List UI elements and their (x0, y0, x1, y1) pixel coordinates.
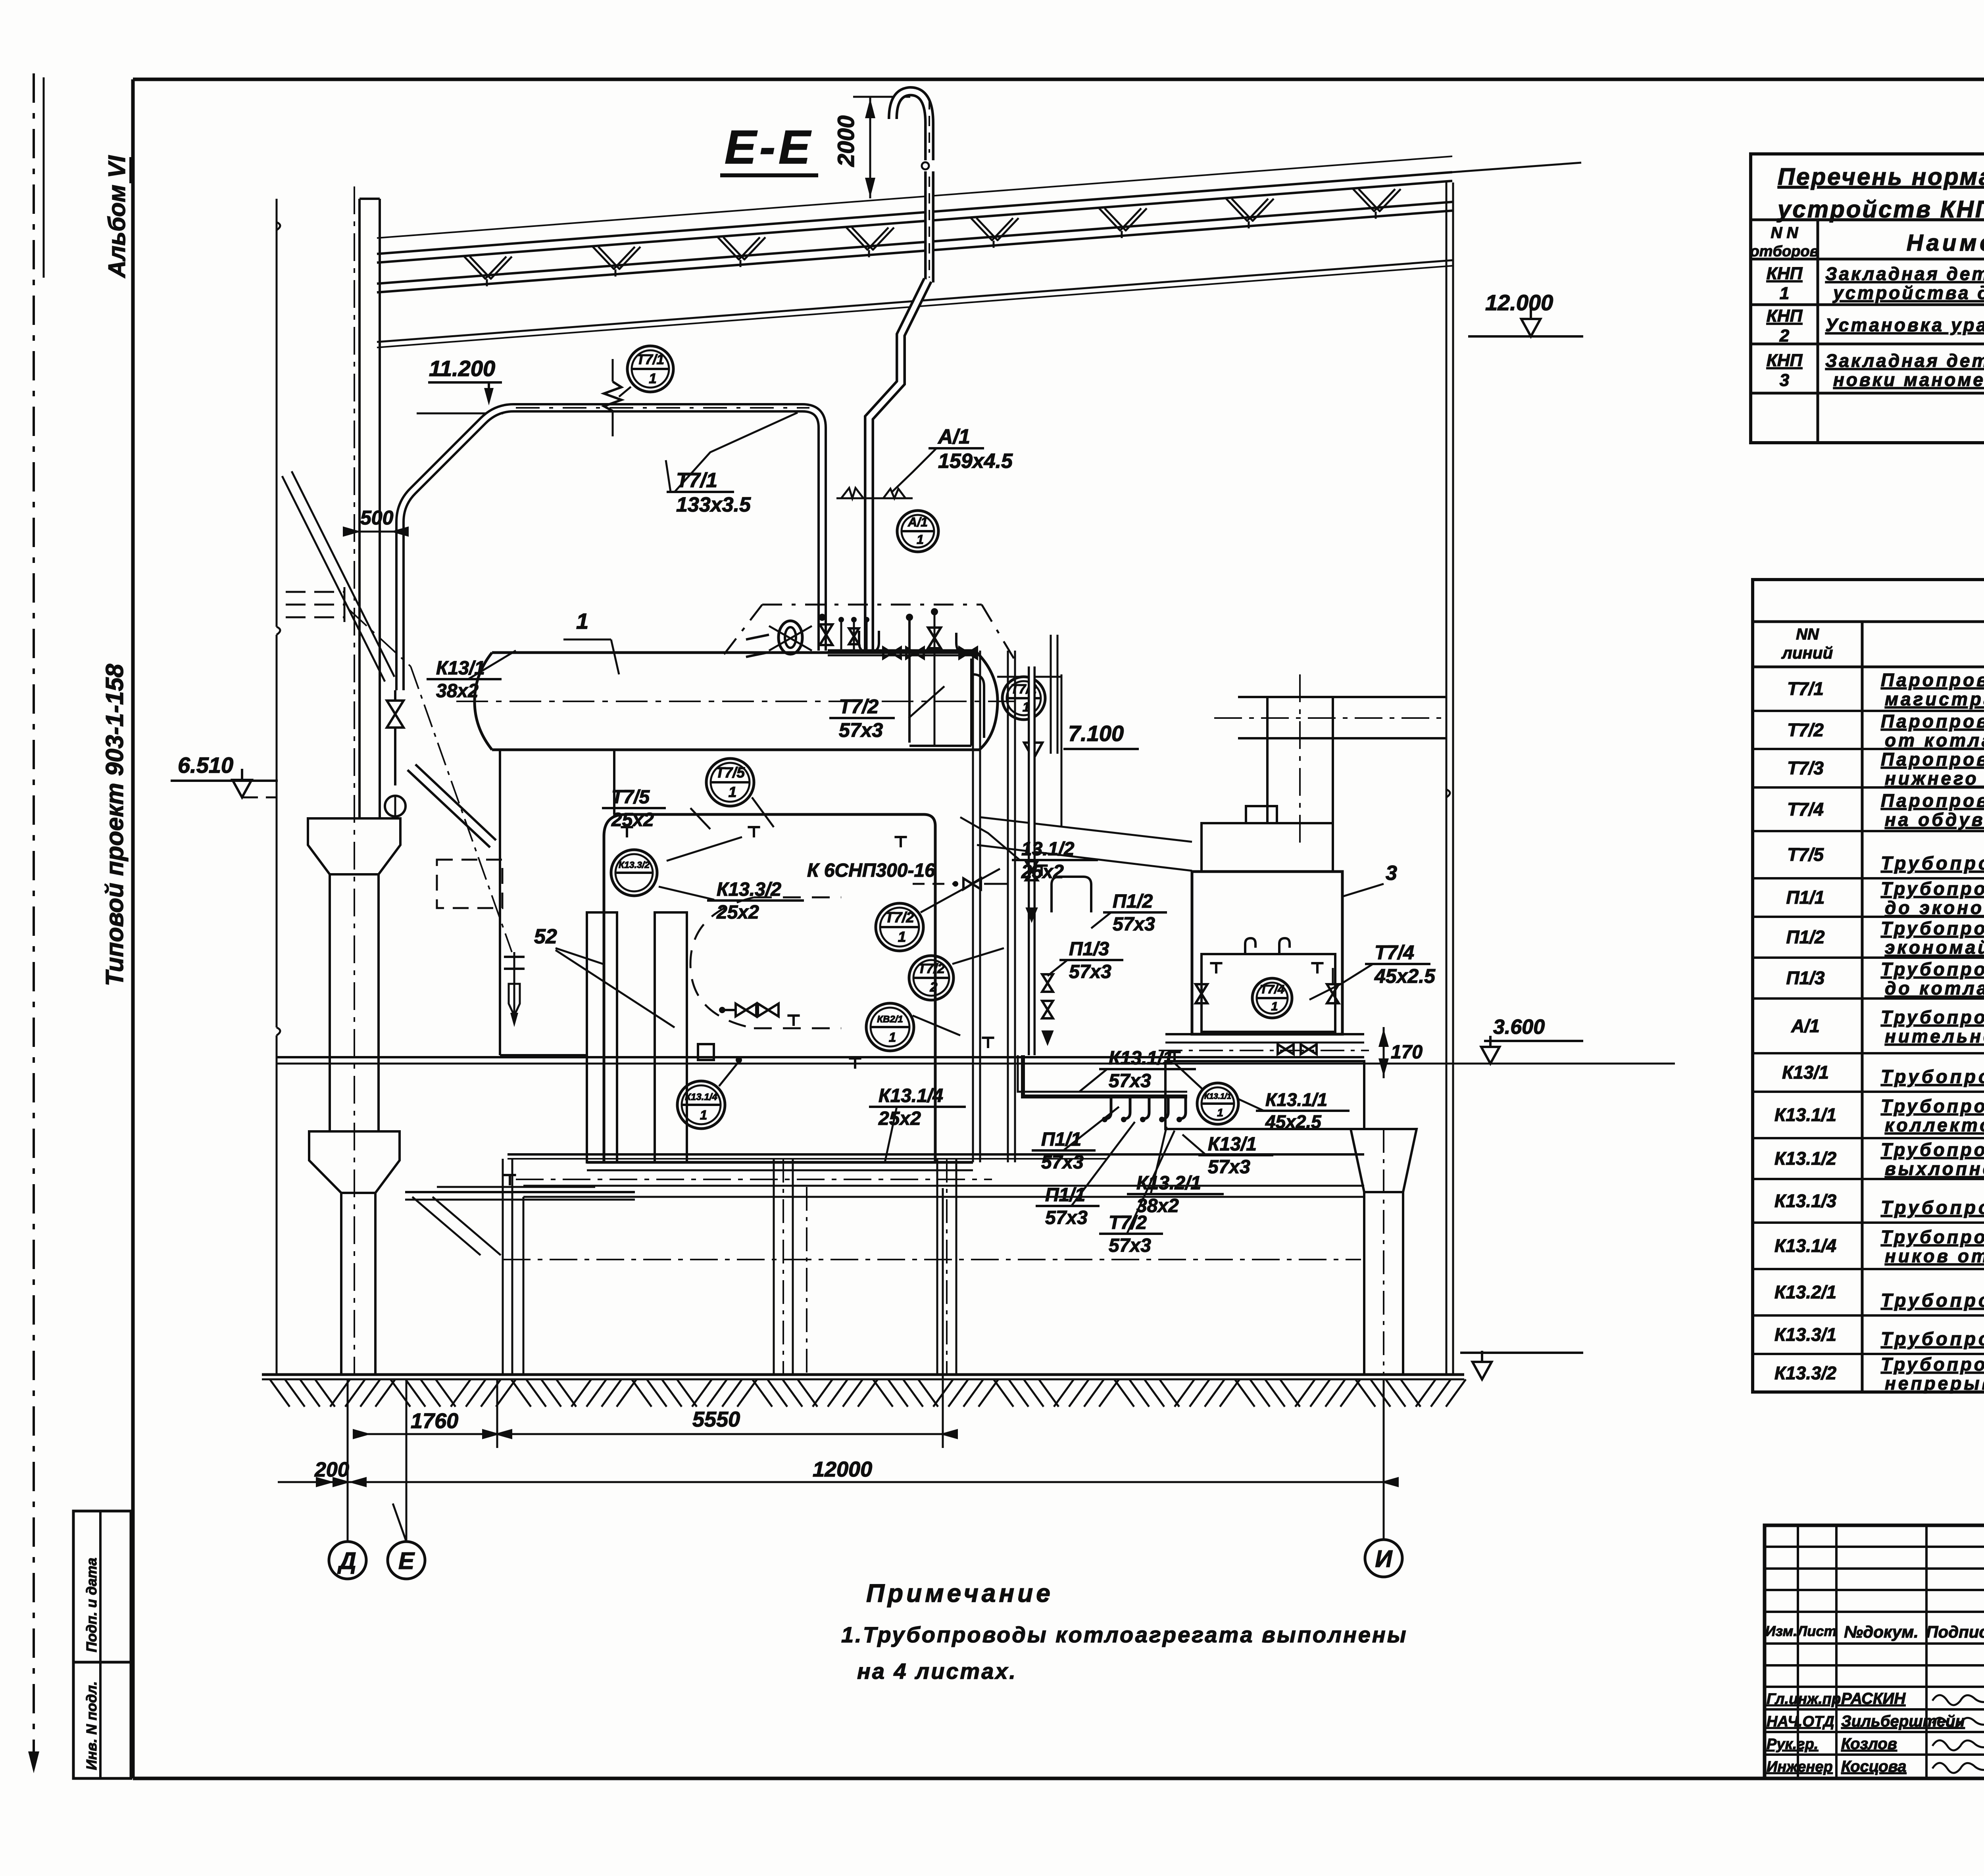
svg-text:25х2: 25х2 (716, 902, 759, 923)
svg-text:устройств КНП и средств ав: устройств КНП и средств автоматизации. (1776, 196, 1984, 223)
svg-text:К13.1/4: К13.1/4 (879, 1085, 943, 1106)
svg-text:Паропровод на разогрев: Паропровод на разогрев (1881, 749, 1984, 770)
svg-text:12000: 12000 (813, 1457, 872, 1481)
svg-text:Т7/2: Т7/2 (885, 909, 914, 926)
svg-text:К13.3/1: К13.3/1 (1774, 1324, 1836, 1345)
svg-text:выхлопного трубопровода: выхлопного трубопровода (1885, 1158, 1984, 1179)
svg-text:Инженер: Инженер (1767, 1759, 1833, 1775)
svg-text:К 6СНП300-16: К 6СНП300-16 (807, 860, 935, 881)
svg-text:57х3: 57х3 (1113, 914, 1155, 935)
svg-text:52: 52 (534, 925, 557, 948)
svg-text:Т7/4: Т7/4 (1260, 982, 1284, 996)
svg-text:159х4.5: 159х4.5 (938, 449, 1013, 472)
svg-text:К13.1/3: К13.1/3 (1774, 1191, 1837, 1211)
svg-text:К13.3/2: К13.3/2 (717, 879, 781, 900)
svg-text:Трубопровод сливной от холо: Трубопровод сливной от холодиль- (1881, 1227, 1984, 1247)
svg-text:1: 1 (898, 929, 906, 945)
svg-text:Трубопровод выхлопной от пре: Трубопровод выхлопной от предохра- (1881, 1007, 1984, 1027)
svg-text:К13.1/2: К13.1/2 (1774, 1148, 1837, 1169)
svg-text:на обдувку экономайзера: на обдувку экономайзера (1885, 809, 1984, 830)
svg-text:57х3: 57х3 (1208, 1157, 1250, 1178)
svg-text:КНП: КНП (1767, 351, 1803, 370)
svg-text:от котла: от котла (1885, 730, 1984, 751)
svg-text:3: 3 (1386, 862, 1397, 885)
svg-text:Т7/1: Т7/1 (1787, 678, 1824, 699)
svg-text:К13/1: К13/1 (1208, 1134, 1257, 1155)
svg-text:Е-Е: Е-Е (725, 121, 813, 174)
svg-text:45х2.5: 45х2.5 (1265, 1112, 1322, 1132)
svg-text:новки манометра: новки манометра (1833, 369, 1984, 390)
svg-text:непрерывной продувки.: непрерывной продувки. (1885, 1373, 1984, 1394)
svg-text:1: 1 (1271, 999, 1278, 1013)
svg-text:N N: N N (1771, 224, 1799, 242)
svg-text:Косцова: Косцова (1841, 1758, 1906, 1775)
svg-text:К13.3/2: К13.3/2 (619, 860, 650, 870)
svg-text:1: 1 (700, 1108, 707, 1122)
svg-text:Подпись: Подпись (1926, 1623, 1984, 1641)
svg-text:линий: линий (1781, 643, 1833, 662)
svg-text:57х3: 57х3 (1109, 1235, 1151, 1256)
svg-text:Трубопровод питательной воды: Трубопровод питательной воды (1881, 959, 1984, 979)
svg-text:НАЧ.ОТД: НАЧ.ОТД (1767, 1713, 1834, 1730)
svg-text:П1/3: П1/3 (1786, 968, 1824, 988)
svg-text:КВ2/1: КВ2/1 (877, 1014, 903, 1025)
svg-text:Примечание: Примечание (866, 1579, 1054, 1607)
svg-text:Т7/5: Т7/5 (1787, 844, 1824, 865)
svg-text:1: 1 (1780, 284, 1789, 303)
svg-text:К13.3/2: К13.3/2 (1774, 1363, 1837, 1383)
svg-text:1: 1 (649, 371, 656, 386)
svg-text:1760: 1760 (411, 1409, 458, 1433)
svg-text:П1/1: П1/1 (1786, 887, 1824, 908)
svg-text:2: 2 (930, 980, 938, 995)
svg-text:Козлов: Козлов (1841, 1735, 1897, 1753)
svg-text:Трубопровод отбора проб вод: Трубопровод отбора проб воды (1881, 1354, 1984, 1375)
svg-text:Трубопровод дренажный от: Трубопровод дренажный от (1881, 1139, 1984, 1160)
svg-text:Т7/1: Т7/1 (676, 469, 717, 492)
svg-text:38х2: 38х2 (436, 681, 479, 702)
svg-text:NN: NN (1796, 626, 1819, 643)
svg-text:2000: 2000 (833, 115, 859, 167)
svg-text:1: 1 (889, 1030, 896, 1045)
svg-text:ников отбора проб.: ников отбора проб. (1885, 1246, 1984, 1266)
svg-text:П1/3: П1/3 (1069, 939, 1109, 960)
svg-text:КНП: КНП (1767, 264, 1803, 283)
svg-text:К13.1/4: К13.1/4 (685, 1092, 717, 1102)
svg-text:Т7/5: Т7/5 (715, 764, 745, 781)
svg-text:3.600: 3.600 (1493, 1016, 1545, 1039)
svg-text:25х2: 25х2 (878, 1108, 921, 1129)
svg-text:2: 2 (1779, 326, 1790, 346)
svg-text:25х2: 25х2 (1021, 862, 1064, 883)
svg-text:170: 170 (1391, 1042, 1423, 1063)
svg-text:Наименование: Наименование (1907, 230, 1984, 256)
svg-text:К13.1/1: К13.1/1 (1204, 1092, 1231, 1101)
svg-text:7.100: 7.100 (1068, 721, 1124, 746)
svg-text:Паропровод собственных нужд: Паропровод собственных нужд (1881, 711, 1984, 732)
svg-text:отборов: отборов (1750, 243, 1819, 260)
svg-text:нижнего барабана котла: нижнего барабана котла (1885, 768, 1984, 789)
svg-text:Т7/4: Т7/4 (1787, 799, 1824, 820)
svg-text:1: 1 (917, 532, 924, 547)
svg-text:Трубопровод дренажный сливно: Трубопровод дренажный сливной (1881, 1197, 1984, 1218)
svg-text:200: 200 (314, 1458, 349, 1481)
svg-text:45х2.5: 45х2.5 (1374, 965, 1436, 987)
svg-text:Инв. N подл.: Инв. N подл. (83, 1681, 100, 1770)
svg-text:Закладная деталь отборного: Закладная деталь отборного (1825, 263, 1984, 284)
svg-text:Изм.: Изм. (1765, 1623, 1797, 1639)
svg-text:500: 500 (360, 507, 394, 529)
svg-text:П1/2: П1/2 (1113, 891, 1153, 912)
svg-text:Т7/4: Т7/4 (1375, 941, 1414, 964)
svg-text:25х2: 25х2 (611, 810, 654, 831)
svg-text:К13.1/1: К13.1/1 (1774, 1104, 1836, 1125)
svg-text:на 4 листах.: на 4 листах. (857, 1659, 1017, 1684)
svg-text:1: 1 (729, 784, 737, 800)
svg-text:Трубопровод периодической пр: Трубопровод периодической продувки (1881, 1290, 1984, 1311)
svg-text:магистральному паропроводу: магистральному паропроводу (1885, 689, 1984, 709)
svg-text:Типовой проект 903-1-158: Типовой проект 903-1-158 (101, 664, 129, 986)
svg-text:нительного клапана котла: нительного клапана котла (1885, 1026, 1984, 1046)
svg-text:1.Трубопроводы котлоагрегата: 1.Трубопроводы котлоагрегата выполнены (841, 1622, 1408, 1647)
svg-text:1: 1 (1217, 1106, 1223, 1119)
svg-text:КНП: КНП (1767, 306, 1803, 326)
svg-text:Трубопровод дренажный от ниж: Трубопровод дренажный от нижнего (1881, 1096, 1984, 1116)
svg-text:Трубопровод отбора проб пар: Трубопровод отбора проб пара (1881, 853, 1984, 874)
svg-text:Установка уравнительного сос: Установка уравнительного сосуда (1825, 315, 1984, 335)
svg-text:Е: Е (398, 1548, 415, 1574)
svg-text:до котла: до котла (1885, 978, 1984, 998)
svg-text:3: 3 (1780, 371, 1789, 390)
svg-text:12.000: 12.000 (1485, 290, 1553, 315)
svg-text:Гл.инж.пр: Гл.инж.пр (1767, 1691, 1841, 1707)
svg-text:Т7/2: Т7/2 (839, 695, 879, 718)
svg-text:Т7/3: Т7/3 (1787, 758, 1824, 778)
svg-text:К13/1: К13/1 (1782, 1062, 1829, 1083)
svg-text:№докум.: №докум. (1844, 1623, 1919, 1641)
svg-text:Лист: Лист (1796, 1623, 1837, 1639)
svg-text:К13.1/4: К13.1/4 (1774, 1235, 1836, 1256)
svg-text:11.200: 11.200 (429, 356, 495, 381)
svg-text:57х3: 57х3 (1045, 1208, 1088, 1229)
svg-text:коллектора экономайзера и па: коллектора экономайзера и паропровода (1885, 1115, 1984, 1135)
svg-text:133х3.5: 133х3.5 (676, 493, 751, 516)
svg-text:до экономайзера: до экономайзера (1885, 897, 1984, 918)
svg-text:Перечень нормалей для устан: Перечень нормалей для установки отборных (1778, 163, 1984, 190)
svg-text:Трубопровод дренажный напорн: Трубопровод дренажный напорный (1881, 1066, 1984, 1087)
svg-text:А/1: А/1 (907, 515, 928, 529)
svg-text:П1/2: П1/2 (1786, 927, 1824, 947)
svg-text:57х3: 57х3 (1041, 1152, 1084, 1173)
svg-text:1: 1 (576, 609, 588, 634)
svg-text:5550: 5550 (692, 1407, 740, 1431)
svg-text:Подп. и дата: Подп. и дата (83, 1558, 100, 1652)
svg-text:Трубопровод питательной воды: Трубопровод питательной воды (1881, 878, 1984, 899)
svg-text:А/1: А/1 (1791, 1016, 1820, 1036)
svg-text:К13.1/1: К13.1/1 (1109, 1048, 1173, 1069)
svg-text:Рук.гр.: Рук.гр. (1767, 1736, 1818, 1753)
svg-text:устройства давления: устройства давления (1832, 282, 1984, 303)
svg-text:И: И (1375, 1546, 1393, 1572)
svg-text:Закладная деталь для уста-: Закладная деталь для уста- (1825, 350, 1984, 371)
svg-text:Т7/2: Т7/2 (1787, 720, 1824, 740)
svg-text:Паропровод собственных нужд: Паропровод собственных нужд (1881, 790, 1984, 811)
svg-text:К13/1: К13/1 (436, 658, 485, 679)
svg-text:К13.2/1: К13.2/1 (1774, 1282, 1836, 1302)
svg-text:Паропровод от котла к: Паропровод от котла к (1881, 670, 1984, 690)
svg-text:57х3: 57х3 (839, 719, 883, 741)
svg-text:Т7/1: Т7/1 (636, 352, 664, 367)
svg-text:А/1: А/1 (937, 425, 970, 448)
svg-text:Т7/5: Т7/5 (611, 787, 650, 808)
svg-text:13.1/2: 13.1/2 (1021, 839, 1075, 860)
svg-text:К13.1/1: К13.1/1 (1265, 1089, 1327, 1110)
svg-text:П1/1: П1/1 (1041, 1129, 1081, 1150)
svg-text:57х3: 57х3 (1109, 1071, 1151, 1092)
svg-text:Трубопровод непрерывной прод: Трубопровод непрерывной продувки (1881, 1328, 1984, 1349)
svg-text:Т7/2: Т7/2 (918, 961, 945, 976)
svg-text:6.510: 6.510 (178, 753, 233, 778)
svg-text:Д: Д (337, 1548, 356, 1574)
svg-text:57х3: 57х3 (1069, 962, 1111, 983)
svg-text:Альбом VI: Альбом VI (104, 155, 130, 278)
svg-text:экономайзера до котла: экономайзера до котла (1885, 937, 1984, 958)
svg-text:Трубопровод питательной воды: Трубопровод питательной воды от (1881, 918, 1984, 939)
svg-text:РАСКИН: РАСКИН (1841, 1690, 1906, 1707)
